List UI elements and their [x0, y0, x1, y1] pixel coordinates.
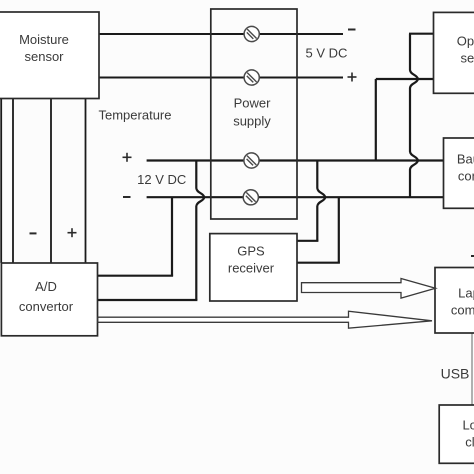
svg-text:5 V DC: 5 V DC [306, 46, 348, 61]
wire vertical V10 x=196.3 from 12V plus down to A/D lower, hop at y197.2 [196, 161, 204, 301]
box laptop computer (clipped right) [435, 268, 474, 334]
wire GPS right lower horizontal y=262.7 [297, 262, 340, 264]
wire A/D lower horizontal y=300 [98, 299, 198, 301]
svg-text:GPS: GPS [237, 244, 265, 259]
box optical sensor (clipped right) [434, 12, 474, 93]
wire vertical V9 x=172 from 12V minus down to A/D upper [171, 197, 173, 276]
svg-text:USB: USB [441, 366, 470, 382]
box baud rate converter (clipped right) [444, 138, 474, 208]
terminal T4 on power supply [243, 190, 258, 205]
svg-text:computer: computer [451, 303, 474, 318]
box local clock (clipped right) [439, 405, 474, 463]
label minus at 12V wire start [123, 196, 131, 198]
wire USB: laptop computer to local clock box [471, 333, 473, 405]
label minus near laptop box top right [471, 255, 474, 257]
svg-text:sensor: sensor [460, 51, 474, 66]
label plus on moisture wire B [68, 228, 77, 237]
svg-text:12 V DC: 12 V DC [137, 172, 186, 187]
svg-text:converter: converter [458, 169, 474, 184]
box A/D convertor [1, 263, 97, 336]
label minus at 5V wire end [348, 29, 356, 31]
wire vertical V8 x=338.8 from 12V minus down to GPS lower [338, 197, 340, 263]
wire A/D upper horizontal y=275.7 [98, 275, 174, 277]
svg-text:A/D: A/D [35, 279, 57, 294]
svg-text:supply: supply [233, 114, 271, 129]
box moisture sensor [0, 12, 99, 99]
wire 12V plus: left label to Baud rate converter, y=160.5 [147, 159, 444, 161]
arrow A/D convertor to laptop computer [98, 311, 432, 328]
svg-text:Laptop: Laptop [458, 286, 474, 301]
svg-text:Optical: Optical [457, 34, 474, 49]
wire into optical sensor top, y=33.7 [409, 33, 435, 35]
wire moisture to A/D vertical 4 [85, 99, 87, 264]
wire moisture to A/D vertical 2 [12, 99, 14, 264]
label minus on moisture wire A [30, 232, 37, 234]
terminal T2 on power supply [244, 70, 259, 85]
box GPS receiver [210, 234, 297, 301]
svg-text:Power: Power [234, 96, 272, 111]
wire vertical V7 x=317.3 from 12V plus down to GPS upper, hop at y197.2 [317, 161, 325, 241]
svg-text:Baud rate: Baud rate [457, 152, 474, 167]
svg-text:Moisture: Moisture [19, 32, 69, 47]
wire moisture to A/D vertical 1 [0, 99, 2, 264]
wire 5V minus: moisture sensor to right, y=34 [99, 33, 343, 35]
wire into optical sensor lower, y=79 [376, 78, 435, 80]
svg-text:receiver: receiver [228, 261, 275, 276]
wire moisture to A/D vertical 3 [50, 99, 52, 264]
label plus at 5V wire end [348, 73, 357, 82]
wire vertical V6 x=410 from optical wire down to 12V minus, hops at y79 and y160.5 [410, 34, 418, 198]
svg-text:clock: clock [465, 435, 474, 450]
svg-text:Local: Local [462, 418, 474, 433]
svg-text:sensor: sensor [24, 49, 64, 64]
wire vertical V5 x=375.8 from y79 to y160.5 [375, 79, 377, 161]
wire 12V minus: left label to Baud rate converter, y=197.2 [147, 196, 444, 198]
svg-text:Temperature: Temperature [99, 108, 172, 123]
box power supply [211, 9, 297, 219]
terminal T1 on power supply [244, 26, 259, 41]
wire GPS right upper horizontal y=240.8 [297, 240, 318, 242]
svg-text:convertor: convertor [19, 299, 74, 314]
wire 5V plus: moisture sensor to right, y=77.5 [99, 77, 343, 79]
label plus at 12V wire start [123, 153, 132, 162]
arrow GPS receiver to laptop computer [302, 279, 436, 299]
terminal T3 on power supply [244, 153, 259, 168]
